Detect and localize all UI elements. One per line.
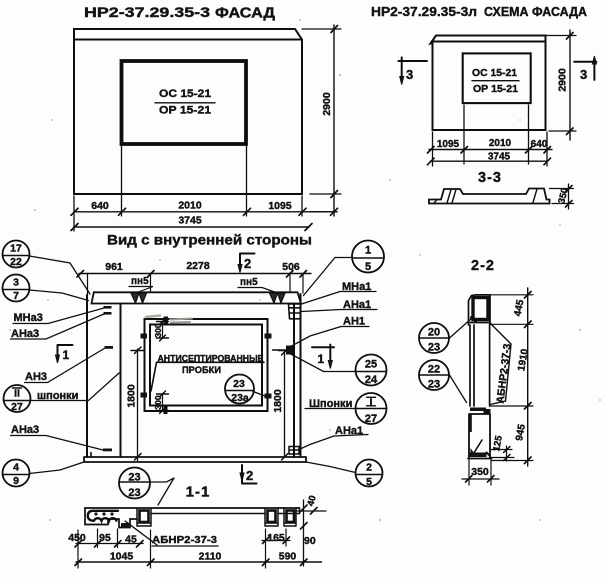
dim text 640 [91,200,292,213]
svg-text:640: 640 [91,200,109,212]
right end rib [284,508,300,526]
section marker 3 left [398,57,427,82]
dim 165 right [266,529,287,568]
svg-text:2010: 2010 [489,138,512,149]
svg-text:пн5: пн5 [240,277,258,288]
svg-text:1045: 1045 [110,551,134,563]
leader ABNR2-37-3 [125,521,157,545]
schema dim line 3745 [431,160,548,162]
plug marks right edge [265,334,272,339]
svg-text:1-1: 1-1 [186,484,211,501]
svg-text:пн5: пн5 [131,276,149,287]
dim 125 [490,446,514,461]
svg-text:АБНР2-37-3: АБНР2-37-3 [152,534,217,546]
svg-text:1800: 1800 [272,389,284,413]
svg-text:НР2-37.29.35-3л: НР2-37.29.35-3л [371,4,477,19]
antiseptic plugs note [158,354,264,375]
smudge on top frame [170,319,192,323]
schema panel outline [431,36,546,131]
dim 350 bottom 2-2 [469,459,491,486]
svg-text:945: 945 [514,423,528,442]
callout circle 25/24 [356,355,387,386]
pn5 wedge right [270,293,286,303]
svg-text:22: 22 [10,256,22,268]
dim 1800 right [284,352,286,457]
svg-text:20: 20 [428,327,440,339]
dimension line 3745 [74,226,309,228]
svg-text:ОС 15-21: ОС 15-21 [159,88,211,100]
head profile outline [469,295,491,325]
extension lines bottom dims [74,146,302,231]
callout circle 22/23 [419,360,449,390]
svg-text:МНа3: МНа3 [14,312,43,324]
schema window text [472,68,518,95]
callout circle 20/23 [419,323,449,353]
svg-text:Вид с внутренней стороны: Вид с внутренней стороны [107,232,312,248]
dimension line 640/2010/1095 [74,211,337,213]
anchor tick ANa3 bottom [103,449,112,452]
svg-text:27: 27 [11,401,23,413]
left rib inner line [120,304,122,458]
svg-text:961: 961 [105,261,123,273]
svg-text:3745: 3745 [178,215,202,227]
leader 22/23 [450,375,467,403]
section 3-3 profile [429,189,550,204]
leader 1/5 [304,258,353,296]
schema dim line 1095/2010/640 [429,149,552,151]
dim ticks row1 [71,208,338,215]
callout circle 1/5 [352,241,384,273]
panel top band line [74,39,302,41]
dim ticks row2 [71,224,312,231]
panel left edge [86,295,88,457]
leader 25/24 [287,352,356,372]
svg-text:2278: 2278 [186,260,210,272]
ext lines 2-2 [476,295,533,461]
svg-text:300: 300 [153,323,163,337]
svg-text:445: 445 [513,298,527,317]
svg-text:3: 3 [580,67,587,82]
svg-text:2010: 2010 [178,200,202,212]
callout circle 2/5 [356,460,383,487]
dim 300 bottom [162,394,164,412]
bottom band left step [90,453,92,458]
svg-text:165: 165 [267,532,285,544]
svg-text:23: 23 [233,378,245,390]
leader 3/7 [30,290,89,301]
svg-text:2-2: 2-2 [471,258,495,274]
slab bottom line [151,513,300,515]
note underline and leader [151,362,264,391]
schema ext lines to dims [433,105,548,166]
schema window opening [463,53,531,103]
svg-text:590: 590 [279,551,297,563]
svg-text:45: 45 [125,534,137,546]
window mark fraction line [155,102,215,104]
bottom right anchor plate [289,447,299,455]
leader 20/23 [450,318,473,338]
callout polygon ABNR [490,323,511,405]
svg-text:1095: 1095 [268,200,292,212]
section marker 2 bottom [242,465,257,484]
right dim line 2-2 [527,288,529,466]
svg-text:1: 1 [63,348,70,362]
section surface top [85,507,300,509]
section marker 1 left [58,345,73,361]
leader 4/9 [30,462,85,474]
svg-text:ФАСАД: ФАСАД [215,5,276,21]
svg-text:640: 640 [531,139,548,150]
svg-text:2: 2 [244,256,251,271]
svg-text:2: 2 [246,468,253,483]
top dim extension lines [88,274,304,297]
svg-text:2900: 2900 [557,68,569,92]
svg-text:3745: 3745 [488,152,511,163]
svg-text:АБНР2-37-3: АБНР2-37-3 [494,343,513,404]
svg-text:1910: 1910 [516,348,531,372]
leader 17/22 [30,256,91,294]
svg-text:9: 9 [13,475,19,487]
svg-text:23: 23 [428,342,440,354]
svg-text:23: 23 [128,487,140,499]
svg-text:I: I [369,397,372,409]
leader 23/23 [150,478,174,505]
facade title [84,5,276,22]
callout circle II/27 [4,385,31,412]
dim ticks 2-2 [525,292,532,464]
body lines [470,324,490,406]
svg-text:25: 25 [365,359,377,371]
callout circle I/27 [356,393,387,424]
svg-text:3: 3 [13,277,19,289]
svg-text:95: 95 [99,532,111,544]
leader 2/5 [306,462,356,473]
window frame outer [145,319,268,411]
callout circle 23/23 [119,468,150,499]
svg-text:7: 7 [13,290,19,302]
dim row2 1045/2110/590 [76,561,322,563]
svg-text:ОР 15-21: ОР 15-21 [473,84,518,95]
sill detail [470,408,486,412]
svg-text:2: 2 [366,462,372,474]
callout circle 4/9 [3,460,30,487]
svg-text:90: 90 [304,535,316,547]
dim 40 right end [303,500,305,566]
anchor tick ANa3 [104,312,112,315]
anchor AN1 mark right [273,349,287,351]
svg-text:1800: 1800 [126,384,138,408]
anchor tick MNa3 [104,306,112,309]
svg-text:ПРОБКИ: ПРОБКИ [182,365,221,375]
schema band line [432,41,546,43]
svg-text:3: 3 [406,67,413,82]
svg-text:АНа3: АНа3 [11,424,39,436]
svg-text:2110: 2110 [199,551,222,563]
schema vertical dim 2900 [569,30,571,140]
svg-text:II: II [14,388,20,400]
svg-text:350: 350 [471,466,489,478]
svg-text:НР2-37.29.35-3: НР2-37.29.35-3 [84,5,211,20]
svg-text:АНа3: АНа3 [11,328,39,340]
svg-text:5: 5 [366,476,372,488]
callout circle 3/7 [3,275,30,302]
svg-text:1095: 1095 [437,139,460,150]
panel right edge [300,294,302,457]
section marker 3 right [574,60,596,80]
right rib inner line [293,304,295,458]
vertical dim 2900 [310,25,337,216]
section 3-3 dim 350 [550,184,574,209]
svg-text:24: 24 [365,374,378,386]
callout circle 17/22 [3,241,30,268]
left rib anchor block [121,523,129,528]
svg-text:АН1: АН1 [343,316,365,328]
right corbel block under band [289,304,301,319]
dim 300 top [162,321,164,339]
section marker 2 top [240,254,255,271]
channel dots [94,512,113,515]
dim 1800 left [137,349,139,461]
anchor tick AN3 [105,346,114,349]
svg-text:23а: 23а [231,392,249,404]
svg-text:4: 4 [13,462,19,474]
dim 90 right end [301,523,308,530]
svg-text:300: 300 [153,395,163,409]
svg-text:40: 40 [305,494,318,507]
svg-text:5: 5 [365,261,371,273]
bottom block inner marks [475,440,483,452]
schema window fraction line [472,80,519,82]
svg-text:450: 450 [68,532,86,544]
svg-text:ОР 15-21: ОР 15-21 [159,105,211,117]
svg-text:АН3: АН3 [25,371,47,383]
callout circle 23/23a [225,375,254,404]
smudge near window head [146,316,160,318]
bottom band [84,457,306,462]
plug marks left edge [141,334,148,339]
svg-text:17: 17 [10,243,22,255]
lintel band [92,292,302,303]
svg-text:СХЕМА ФАСАДА: СХЕМА ФАСАДА [484,4,588,19]
window rib left [137,508,151,526]
section marker 1 right [312,345,334,366]
window opening OC15-21 [122,61,247,144]
svg-text:506: 506 [282,261,300,273]
svg-text:2900: 2900 [321,92,333,116]
svg-text:1: 1 [365,245,371,257]
dim row1 left [76,543,143,545]
svg-text:3-3: 3-3 [478,170,502,186]
left rib channel detail [88,511,118,521]
window mark text [159,88,211,117]
svg-text:22: 22 [428,364,440,376]
window rib right [265,508,278,526]
svg-text:27: 27 [365,413,377,425]
head fitting dark detail [473,298,488,320]
svg-text:ОС 15-21: ОС 15-21 [472,68,517,79]
bottom block [468,414,492,459]
pn5 wedge left [131,293,147,303]
svg-text:23: 23 [428,379,440,391]
schema title [371,4,588,19]
panel outline [74,29,302,194]
svg-text:1: 1 [318,352,325,366]
plug mark top edge [164,317,169,325]
plug mark bottom edge [164,407,168,415]
left rib outline [85,508,137,528]
window frame inner [150,325,262,406]
top dim line 961/2278/506 [79,273,311,275]
